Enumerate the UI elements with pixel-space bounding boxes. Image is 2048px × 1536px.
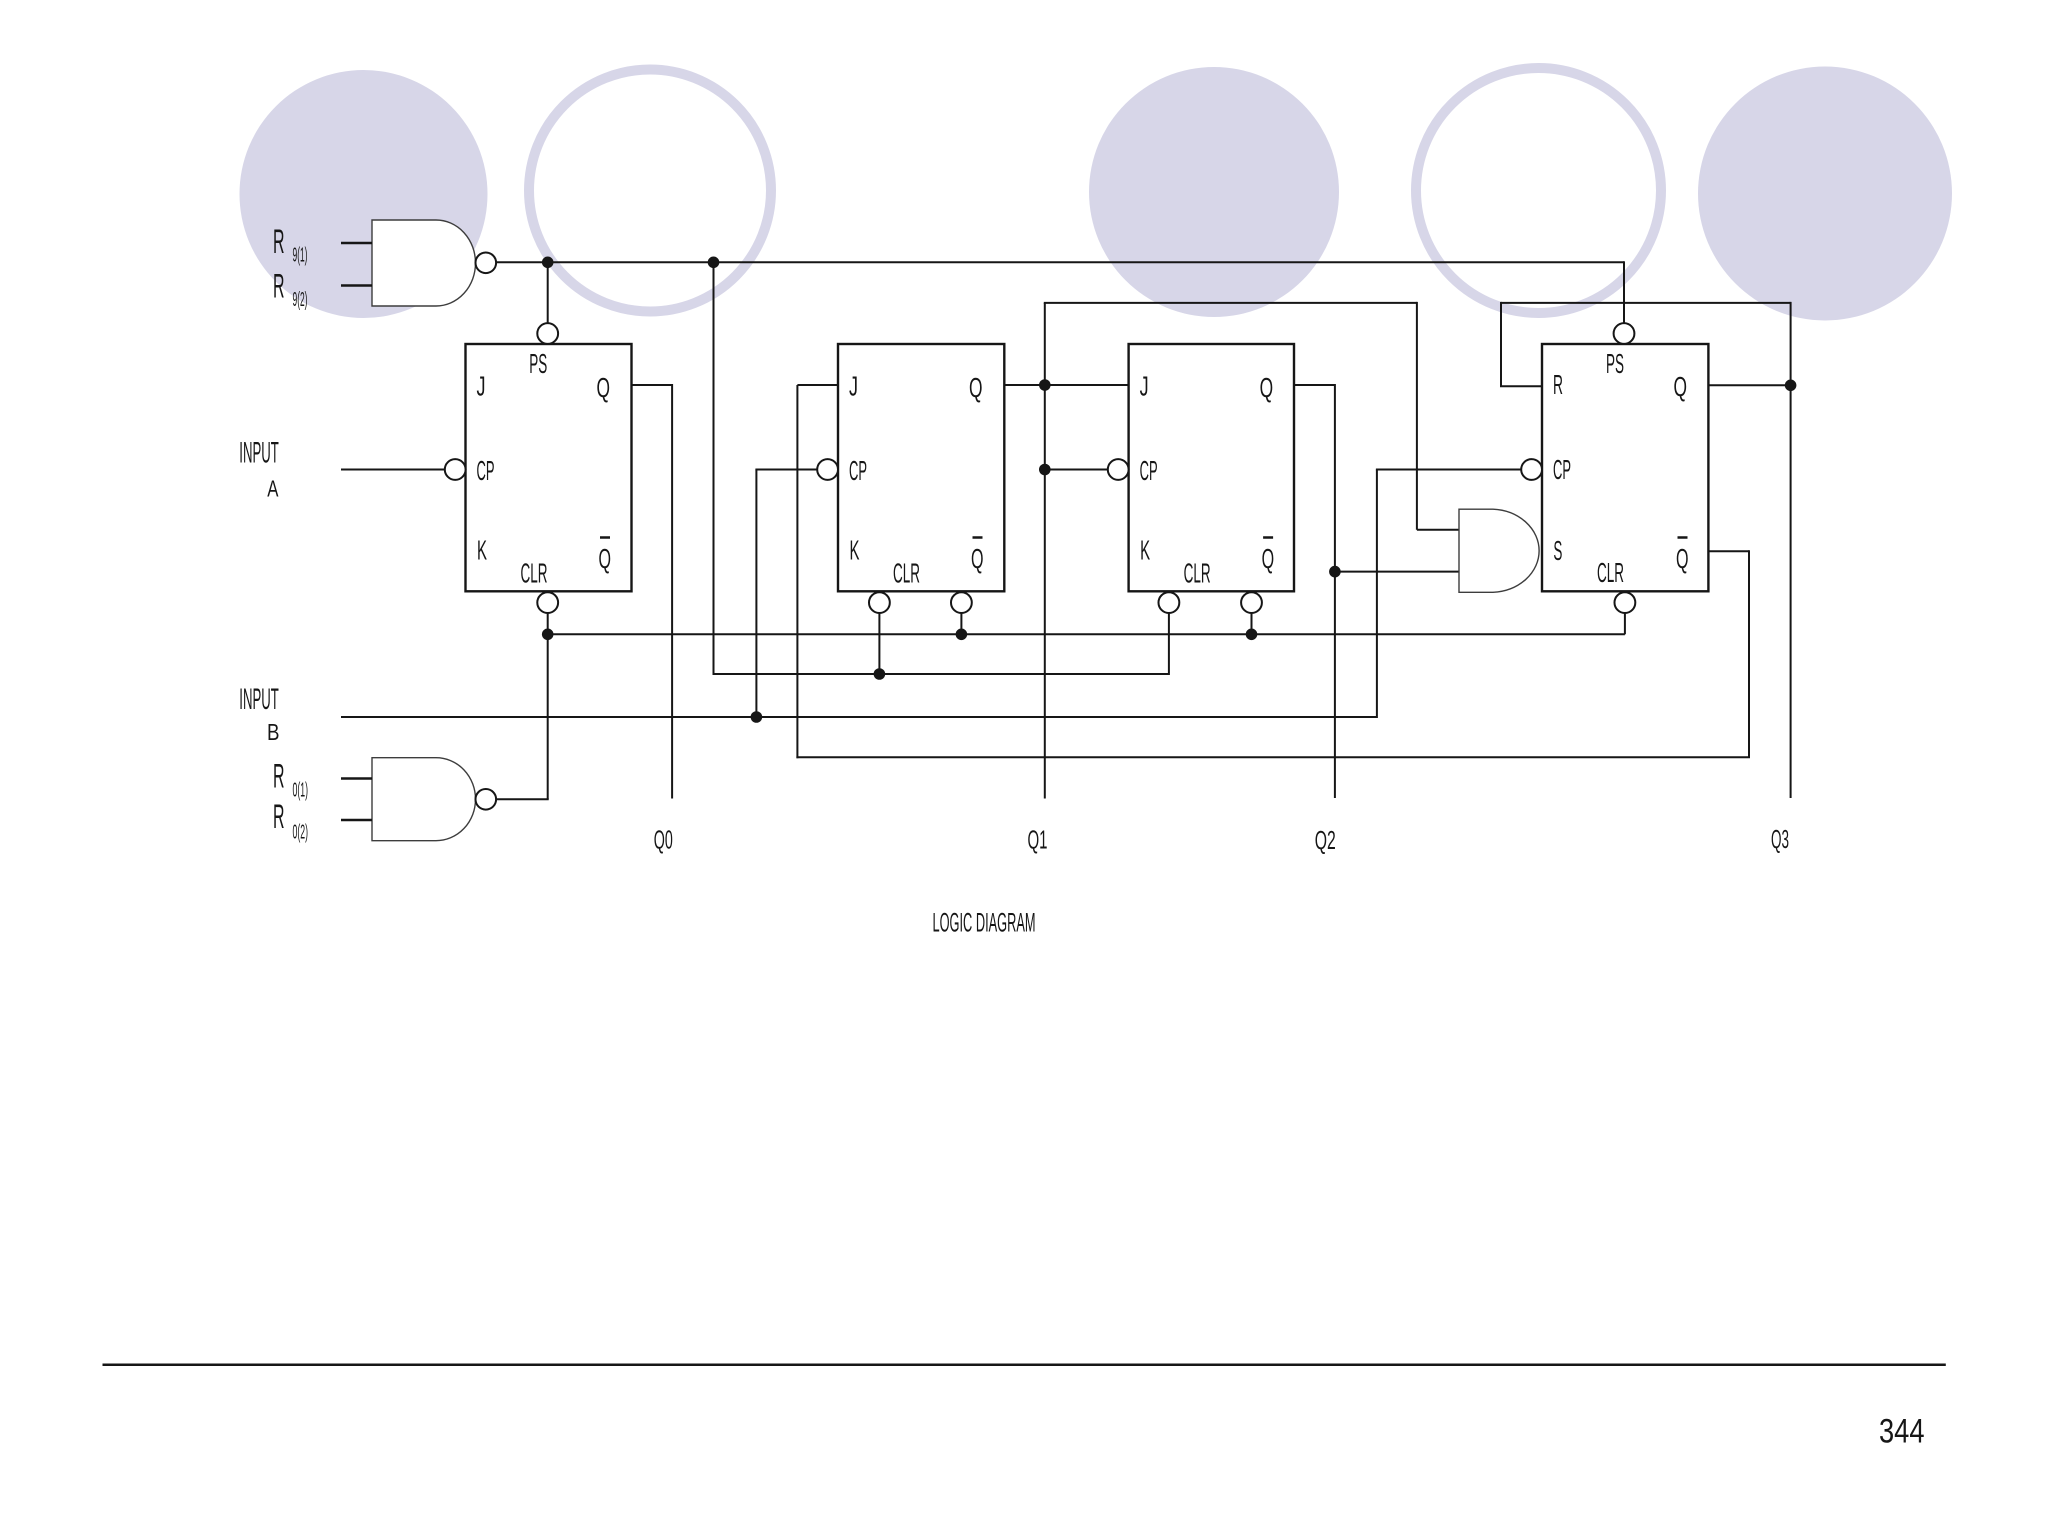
wire Q output FF1	[632, 384, 673, 386]
wire PS stub FF1	[547, 262, 549, 323]
svg-text:K: K	[850, 535, 860, 566]
bubble CP FF4	[1521, 459, 1542, 480]
svg-text:0(2): 0(2)	[293, 822, 309, 844]
svg-text:K: K	[477, 535, 487, 566]
decorative ring circle 4	[1416, 68, 1661, 313]
svg-text:Q1: Q1	[1028, 825, 1048, 855]
wire Q output FF4	[1708, 384, 1790, 386]
svg-text:0(1): 0(1)	[293, 780, 309, 802]
svg-text:R: R	[273, 798, 285, 836]
svg-text:Q: Q	[971, 543, 984, 574]
flip-flop FF1 box	[466, 344, 632, 591]
svg-text:A: A	[267, 476, 279, 502]
bubble PS FF1	[537, 323, 558, 344]
wire J input FF2	[797, 384, 838, 386]
svg-text:Q2: Q2	[1315, 825, 1336, 855]
svg-text:Q0: Q0	[654, 825, 673, 855]
wire AND gate bottom input	[1335, 571, 1459, 573]
svg-text:R: R	[273, 268, 285, 306]
wire Q1 vertical	[1044, 303, 1046, 799]
svg-text:R: R	[273, 223, 285, 261]
flip-flop FF3 box	[1129, 344, 1294, 591]
wire CP FF2	[755, 469, 817, 471]
svg-text:Q: Q	[599, 543, 612, 574]
svg-text:CP: CP	[477, 455, 495, 486]
NAND gate G1 R9 body	[372, 220, 476, 306]
decorative ring circle 2	[529, 70, 771, 312]
NAND gate G2 input stubs	[341, 777, 372, 779]
wire Q3 vertical	[1790, 302, 1792, 798]
svg-text:J: J	[477, 371, 486, 402]
wire R riser FF4	[1500, 302, 1502, 386]
bubble CLR FF4	[1615, 592, 1636, 613]
decorative filled circle 3	[1089, 67, 1339, 317]
wire CLR FF1 down to R0 gate	[547, 613, 549, 799]
junction node CLR bus FF3	[1246, 629, 1258, 641]
wire feedback up	[796, 385, 798, 758]
wire rail corner down to PS of FF4	[1623, 261, 1625, 323]
svg-text:344: 344	[1879, 1412, 1925, 1450]
NAND gate G1 input stubs	[341, 242, 372, 244]
decorative filled circle 1	[240, 70, 488, 318]
svg-text:INPUT: INPUT	[239, 436, 278, 469]
junction node on rail at PS1	[542, 257, 554, 269]
bubble CP FF1	[445, 459, 466, 480]
wire CLR bus	[548, 633, 1625, 635]
wire Q3 top horizontal	[1501, 302, 1791, 304]
wire Q output FF2 to J FF3	[1004, 384, 1128, 386]
svg-text:Q: Q	[597, 372, 611, 403]
bubble CP FF2	[817, 459, 838, 480]
wire R0 NAND output	[496, 798, 549, 800]
wire CP riser FF2	[755, 470, 757, 719]
flip-flop FF2 box	[838, 344, 1004, 591]
junction node INPUT B to CP2	[751, 711, 763, 723]
footer rule	[103, 1363, 1946, 1366]
svg-text:CLR: CLR	[1597, 557, 1624, 588]
junction node Q1 at J3	[1039, 379, 1051, 391]
wire Qbar stub FF3	[1251, 613, 1253, 634]
wire CLR stub FF3	[1168, 613, 1170, 675]
svg-text:CLR: CLR	[1184, 558, 1211, 589]
wire CP FF4	[1376, 469, 1521, 471]
svg-text:Q: Q	[969, 372, 983, 403]
svg-text:PS: PS	[1606, 348, 1624, 379]
NAND gate G2 output bubble	[476, 789, 497, 810]
wire Q0 vertical	[671, 384, 673, 799]
junction node CLR branch FF2	[874, 668, 886, 680]
NAND gate G1 output bubble	[476, 252, 497, 273]
svg-text:CP: CP	[1553, 454, 1571, 485]
svg-text:CP: CP	[849, 455, 867, 486]
junction node on rail at CLR branch	[708, 257, 720, 269]
wire CP FF3	[1045, 469, 1108, 471]
svg-text:Q: Q	[1676, 543, 1689, 574]
junction node CLR bus FF1	[542, 629, 554, 641]
svg-text:CP: CP	[1140, 455, 1158, 486]
svg-text:LOGIC DIAGRAM: LOGIC DIAGRAM	[933, 908, 1036, 938]
wire Qbar output FF4	[1708, 550, 1749, 552]
svg-text:J: J	[1140, 371, 1149, 402]
bubble CP FF3	[1108, 459, 1129, 480]
wire R9 NAND output / top rail	[496, 261, 1624, 263]
svg-text:B: B	[267, 719, 280, 745]
svg-text:Q3: Q3	[1771, 824, 1789, 854]
wire INPUT A	[341, 469, 445, 471]
wire B riser to CP of FF4	[1376, 470, 1378, 719]
svg-text:9(1): 9(1)	[293, 245, 308, 267]
svg-text:PS: PS	[529, 348, 547, 379]
svg-text:Q: Q	[1674, 371, 1688, 402]
bubble CLR FF2	[869, 592, 890, 613]
junction node CLR bus FF2	[956, 629, 968, 641]
wire Q1 top horizontal	[1044, 302, 1417, 304]
wire Q output FF3	[1294, 384, 1335, 386]
svg-text:Q: Q	[1262, 543, 1275, 574]
svg-text:9(2): 9(2)	[293, 289, 308, 311]
wire feedback down	[1748, 550, 1750, 757]
wire AND gate top input	[1417, 529, 1459, 531]
svg-text:CLR: CLR	[893, 558, 920, 589]
svg-text:R: R	[273, 757, 285, 795]
svg-text:K: K	[1140, 535, 1150, 566]
wire CLR branch horizontal	[713, 673, 1169, 675]
wire feedback horizontal	[796, 756, 1750, 758]
bubble Qbar FF3	[1241, 592, 1262, 613]
wire Qbar stub FF2	[960, 613, 962, 634]
bubble PS FF4	[1614, 323, 1635, 344]
wire Q2 vertical	[1334, 384, 1336, 798]
junction node Q1 at CP3	[1039, 464, 1051, 476]
junction node Q2 at AND input	[1329, 566, 1341, 578]
svg-text:Q: Q	[1260, 372, 1274, 403]
flip-flop FF4 box	[1542, 344, 1708, 591]
decorative filled circle 5	[1698, 67, 1952, 321]
wire R input FF4	[1500, 385, 1542, 387]
bubble CLR FF1	[537, 592, 558, 613]
wire CLR stub FF2	[878, 613, 880, 674]
AND gate G3 body	[1459, 509, 1539, 592]
svg-text:R: R	[1553, 369, 1563, 400]
wire INPUT B	[341, 716, 1377, 718]
junction node Q3 at FF4 Q	[1785, 380, 1797, 392]
bubble Qbar FF2	[951, 592, 972, 613]
svg-text:CLR: CLR	[521, 558, 548, 589]
bubble CLR FF3	[1159, 592, 1180, 613]
NAND gate G2 R0 body	[372, 758, 476, 841]
svg-text:S: S	[1553, 535, 1562, 566]
svg-text:INPUT: INPUT	[239, 683, 278, 716]
svg-text:J: J	[849, 371, 858, 402]
wire CLR riser FF4	[1624, 613, 1626, 634]
wire AND gate riser	[1416, 302, 1418, 530]
wire CLR branch vertical	[713, 262, 715, 675]
